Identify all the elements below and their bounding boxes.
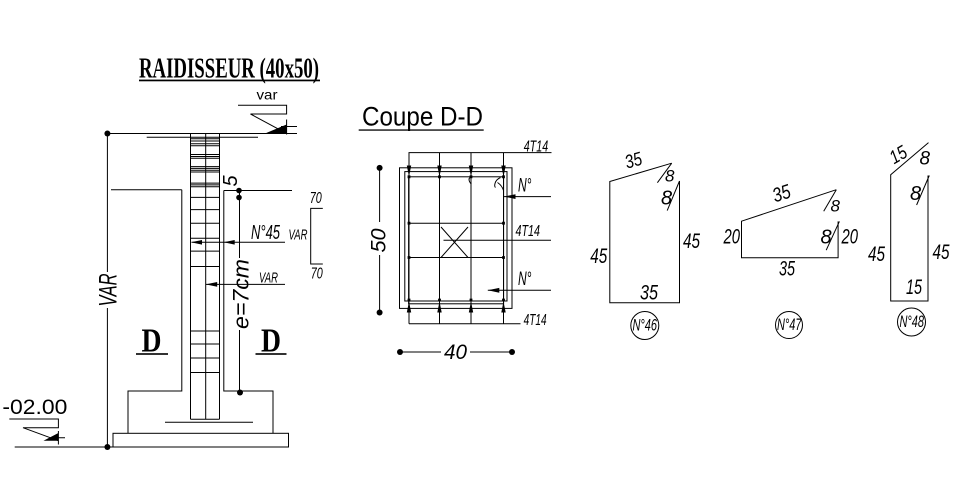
line at wall top from dots	[239, 190, 292, 192]
column anchor line	[165, 421, 253, 423]
wall left edge	[128, 190, 182, 433]
top drop arrowheads	[407, 166, 506, 177]
svg-text:N°45: N°45	[251, 222, 281, 244]
dots of 5 dimension	[236, 188, 242, 194]
40 dimension line	[400, 351, 512, 353]
N46 apex hook	[657, 163, 671, 183]
dot bottom of e7cm dimension	[237, 390, 243, 396]
N top arrow line	[504, 196, 551, 198]
svg-text:4T14: 4T14	[524, 312, 547, 329]
ground baseline	[15, 446, 113, 448]
N45 arrow line	[192, 241, 286, 243]
svg-text:Coupe D-D: Coupe D-D	[362, 102, 483, 132]
50 dimension line	[379, 168, 381, 313]
svg-text:15: 15	[906, 276, 922, 299]
svg-text:8: 8	[920, 149, 931, 170]
svg-text:45: 45	[683, 230, 700, 253]
slab soffit line	[147, 136, 258, 138]
middle leader line 4T14	[444, 239, 552, 241]
svg-text:5: 5	[220, 175, 242, 187]
svg-text:e=7cm: e=7cm	[229, 259, 254, 329]
N46 circle	[631, 312, 659, 340]
svg-text:8: 8	[821, 226, 832, 248]
slab top line	[107, 133, 297, 135]
e7cm dimension line	[239, 191, 241, 393]
40 dimension dots	[397, 349, 403, 355]
70 bracket	[311, 208, 323, 264]
section outer rect	[400, 168, 513, 309]
VAR arrow line	[206, 283, 285, 285]
D left underline	[136, 353, 168, 355]
title underline	[139, 80, 320, 82]
svg-text:45: 45	[590, 245, 607, 268]
bar section squares	[408, 175, 505, 301]
svg-text:8: 8	[661, 188, 672, 210]
N46 right hook	[667, 181, 679, 211]
column vertical bars	[191, 134, 220, 419]
svg-text:40: 40	[444, 341, 467, 364]
svg-text:VAR: VAR	[259, 269, 278, 286]
wall top right line	[224, 190, 292, 192]
stirrup rect B	[409, 177, 504, 304]
svg-text:70: 70	[310, 190, 322, 207]
bottom leader line 4T14	[409, 323, 521, 325]
VAR arrowhead	[206, 282, 218, 287]
svg-text:20: 20	[723, 225, 740, 248]
stirrup hook marks	[469, 177, 503, 191]
X mark	[441, 227, 468, 258]
svg-text:70: 70	[311, 265, 323, 282]
wall right edge	[224, 191, 273, 434]
svg-text:var: var	[257, 87, 278, 103]
50 dimension dots	[377, 165, 383, 171]
bottom rise arrowheads	[407, 302, 506, 313]
svg-text:VAR: VAR	[289, 226, 308, 243]
svg-text:4T14: 4T14	[524, 138, 549, 155]
wall top left line	[111, 189, 182, 191]
stirrup rect A	[405, 172, 507, 301]
svg-text:45: 45	[868, 243, 885, 266]
svg-text:4T14: 4T14	[516, 223, 541, 240]
top leader line 4T14	[409, 152, 552, 154]
Coupe D-D underline	[359, 129, 484, 130]
svg-text:N°48: N°48	[900, 313, 925, 331]
footing base	[113, 433, 289, 447]
middle horizontal bars	[409, 223, 504, 257]
N47 circle	[776, 312, 803, 339]
svg-text:N°: N°	[518, 269, 532, 290]
svg-text:8: 8	[665, 167, 675, 186]
svg-text:8: 8	[910, 183, 921, 205]
svg-text:N°46: N°46	[633, 316, 658, 334]
dot top of VAR dimension	[104, 131, 110, 137]
bar shape N47 outline	[742, 190, 839, 258]
D right underline	[256, 353, 287, 355]
N45 arrowhead left	[191, 240, 202, 245]
vertical bar lines with leader drops	[409, 153, 504, 324]
N48 circle	[898, 308, 926, 336]
svg-text:35: 35	[640, 282, 658, 305]
svg-text:N°47: N°47	[777, 316, 802, 334]
svg-text:N°: N°	[518, 175, 532, 196]
svg-text:50: 50	[368, 228, 391, 252]
svg-text:VAR: VAR	[95, 274, 123, 307]
N47 apex hook	[824, 190, 837, 212]
N top arrowhead	[504, 194, 516, 199]
N bottom arrow line	[488, 289, 551, 291]
bar shape N46 outline	[610, 163, 680, 303]
N48 right hook	[917, 176, 930, 206]
dot bottom of VAR dimension	[104, 444, 110, 450]
level symbol var	[238, 105, 287, 133]
N47 right hook	[826, 221, 839, 250]
svg-text:45: 45	[933, 241, 950, 264]
column bottom line	[191, 418, 220, 420]
column stirrup rungs	[191, 139, 220, 373]
svg-text:-02.00: -02.00	[2, 395, 67, 419]
bar shape N48 outline	[891, 143, 929, 301]
N bottom arrowhead	[488, 288, 500, 293]
VAR dimension vertical line	[106, 134, 108, 448]
level symbol -02.00	[9, 419, 58, 441]
svg-text:20: 20	[841, 225, 858, 248]
svg-text:35: 35	[779, 258, 795, 281]
svg-text:8: 8	[831, 196, 841, 215]
N45 arrowhead right	[224, 240, 235, 245]
